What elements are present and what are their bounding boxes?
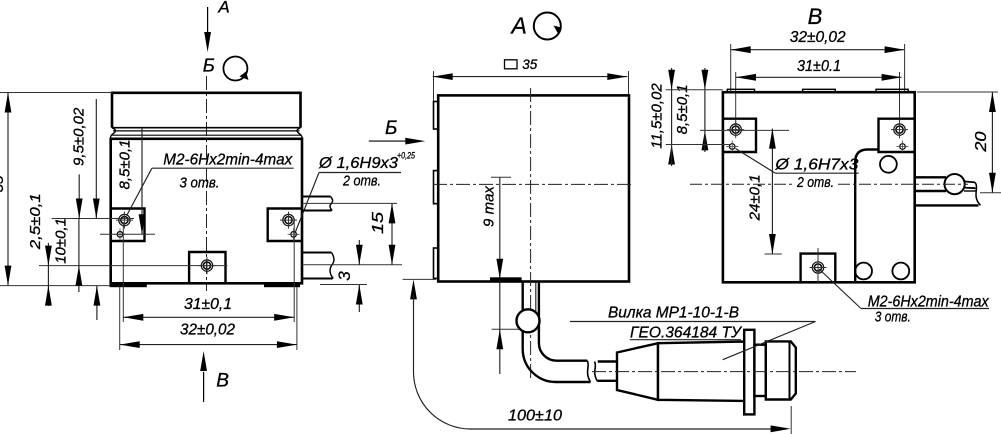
lower connector tab bbox=[302, 253, 333, 279]
svg-text:32±0,02: 32±0,02 bbox=[180, 321, 235, 338]
svg-text:Ø 1,6Н7х3: Ø 1,6Н7х3 bbox=[774, 156, 858, 173]
svg-text:+0,25: +0,25 bbox=[397, 151, 416, 162]
svg-text:8,5±0,1: 8,5±0,1 bbox=[674, 84, 691, 134]
right lug bbox=[268, 209, 302, 242]
svg-text:31±0,1: 31±0,1 bbox=[184, 296, 232, 313]
svg-text:Вилка МР1-10-1-В: Вилка МР1-10-1-В bbox=[608, 304, 739, 321]
ball bushing bbox=[517, 309, 540, 332]
screw centerline horizontal (left lug) bbox=[52, 218, 134, 220]
body bottom extension line bbox=[320, 284, 367, 286]
svg-text:2 отв.: 2 отв. bbox=[342, 172, 381, 189]
right foot (black) bbox=[264, 284, 300, 288]
svg-text:Ø 1,6Н9х3: Ø 1,6Н9х3 bbox=[318, 155, 398, 172]
rear stub after ball bbox=[964, 181, 976, 188]
svg-text:9,5±0,02: 9,5±0,02 bbox=[71, 107, 88, 166]
svg-text:8,5±0,1: 8,5±0,1 bbox=[116, 140, 133, 190]
connector nut bbox=[766, 341, 796, 399]
right rear small hole bbox=[897, 141, 909, 153]
svg-text:2,5±0,1: 2,5±0,1 bbox=[27, 193, 44, 250]
top pads bbox=[727, 89, 754, 92]
svg-text:Б: Б bbox=[203, 55, 215, 76]
dimension 100±10 bbox=[403, 278, 436, 280]
dimension square 35 bbox=[505, 60, 518, 69]
cable rear: tube bbox=[915, 176, 946, 178]
left rear screw bbox=[727, 121, 744, 138]
rear lower band bbox=[915, 204, 979, 206]
cable inner wire line bbox=[535, 282, 537, 314]
svg-text:24±0,1: 24±0,1 bbox=[747, 174, 764, 221]
extension lines below body bbox=[122, 222, 124, 322]
leader to right lug small hole bbox=[295, 173, 319, 234]
connector body bbox=[658, 342, 744, 401]
rear view horizontal centerline bbox=[690, 183, 795, 185]
label leader to connector bbox=[723, 322, 816, 360]
svg-text:3 отв.: 3 отв. bbox=[875, 309, 911, 326]
right rear screw bbox=[891, 121, 908, 138]
svg-text:20: 20 bbox=[973, 131, 990, 152]
extension lines left of rear view bbox=[666, 89, 723, 91]
lower tab centerline bbox=[303, 264, 402, 266]
svg-text:100±10: 100±10 bbox=[508, 408, 562, 425]
svg-text:3: 3 bbox=[335, 271, 354, 281]
center lug screw M2 bbox=[199, 257, 216, 274]
right rear lug bbox=[879, 119, 915, 152]
svg-text:9 max: 9 max bbox=[480, 186, 497, 227]
left rear lug bbox=[723, 119, 756, 152]
upper connector tab bbox=[302, 197, 332, 211]
horizontal centerline bbox=[433, 183, 634, 185]
cable break squiggle bbox=[587, 361, 590, 382]
left rear small hole bbox=[726, 141, 738, 153]
svg-text:Б: Б bbox=[385, 118, 397, 139]
left lug small hole bbox=[114, 228, 126, 240]
svg-text:2 отв.: 2 отв. bbox=[796, 174, 834, 191]
leader to left lug screw bbox=[127, 168, 152, 215]
box (rear view) bbox=[723, 92, 915, 282]
connector centerline bbox=[592, 371, 856, 373]
hole on cavity corner bbox=[880, 156, 897, 173]
small hole centerline horizontal bbox=[100, 233, 155, 235]
bottom right holes bbox=[855, 263, 872, 280]
connector flange bbox=[744, 330, 754, 415]
centerline of left view bbox=[206, 76, 208, 291]
cable gland (thick) bbox=[490, 277, 522, 281]
cable elbow bbox=[523, 330, 591, 382]
svg-text:32±0,02: 32±0,02 bbox=[790, 29, 846, 46]
svg-text:А: А bbox=[217, 0, 229, 17]
svg-text:В: В bbox=[808, 4, 823, 29]
svg-text:А: А bbox=[510, 12, 527, 38]
cable vertical tube bbox=[522, 282, 524, 312]
connector cone bbox=[617, 343, 658, 400]
leader to small hole bbox=[736, 149, 776, 174]
left lug bbox=[111, 209, 145, 242]
svg-text:15: 15 bbox=[370, 212, 387, 234]
svg-text:В: В bbox=[216, 371, 229, 392]
left lug screw M2 bbox=[116, 212, 133, 229]
svg-text:35: 35 bbox=[522, 57, 537, 72]
vertical centerline bbox=[530, 88, 532, 378]
overall height dimension (far left, label cut) bbox=[0, 92, 112, 94]
center screw long horizontal line bbox=[39, 265, 228, 267]
svg-text:10±0,1: 10±0,1 bbox=[53, 218, 70, 264]
second chained dim line bbox=[95, 99, 97, 219]
svg-text:35: 35 bbox=[0, 175, 7, 192]
connector neck bbox=[754, 345, 765, 396]
svg-text:3 отв.: 3 отв. bbox=[180, 174, 220, 191]
svg-text:М2-6Нх2min-4max: М2-6Нх2min-4max bbox=[163, 152, 293, 169]
bottom center screw bbox=[810, 259, 827, 276]
right lug small hole bbox=[288, 228, 300, 240]
cable stub to connector bbox=[598, 360, 617, 362]
box (side view) bbox=[438, 95, 629, 281]
svg-text:11,5±0,02: 11,5±0,02 bbox=[649, 83, 666, 149]
main body bbox=[111, 139, 302, 283]
upper tab centerline bbox=[303, 202, 397, 204]
right lug screw M2 bbox=[280, 212, 297, 229]
svg-text:31±0.1: 31±0.1 bbox=[797, 58, 841, 75]
cap-body wavy joint bbox=[113, 130, 300, 132]
cap (top section) bbox=[112, 93, 301, 128]
bottom center lug bbox=[801, 254, 836, 283]
center lug bbox=[189, 252, 225, 283]
leader to bottom screw bbox=[819, 269, 861, 309]
svg-text:ГЕО.364184 ТУ: ГЕО.364184 ТУ bbox=[630, 324, 743, 341]
rear ball bbox=[945, 174, 965, 194]
left foot (black) bbox=[110, 284, 147, 288]
side tabs (lug edges) bbox=[434, 102, 439, 130]
cavity outline with round corner bbox=[855, 150, 878, 283]
